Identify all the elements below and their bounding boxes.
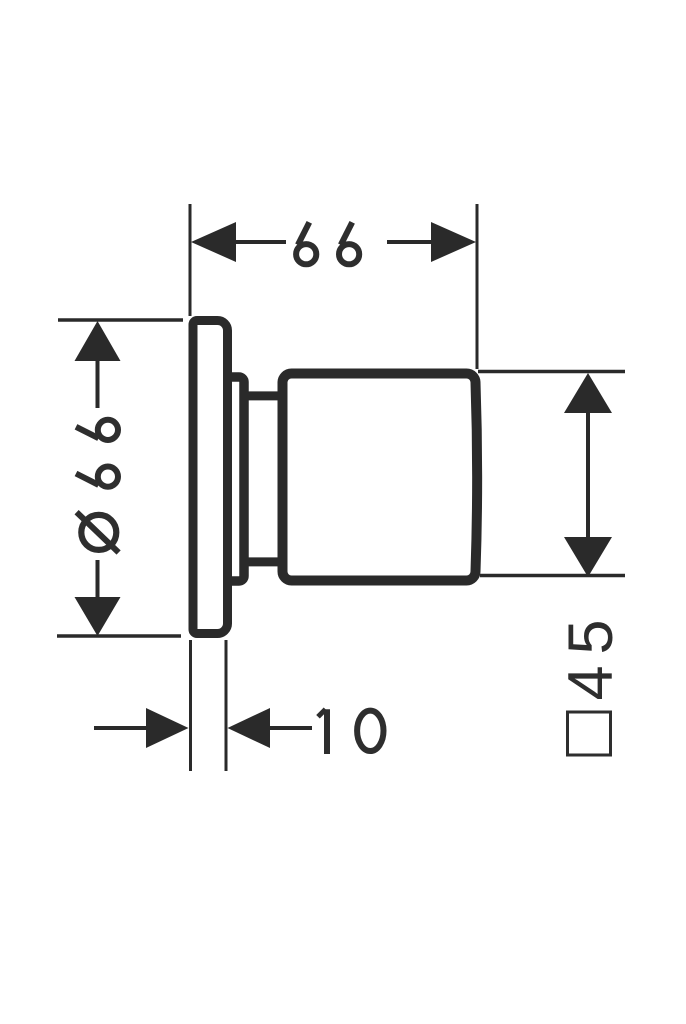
node square symbol for 45: [568, 712, 611, 755]
node left down arrowhead: [75, 597, 121, 636]
wire bottom dimension tail right: [268, 726, 312, 730]
node top-right arrowhead: [431, 222, 476, 262]
wire left dimension stem lower: [96, 560, 100, 599]
node left up arrowhead: [75, 321, 121, 361]
wire neck top line: [240, 391, 286, 400]
wire left dimension stem upper: [96, 359, 100, 408]
wire right dimension stem: [586, 412, 590, 538]
node right down arrowhead: [564, 537, 612, 577]
wire neck bottom line: [240, 557, 286, 566]
wire bottom-left extension line: [189, 640, 192, 771]
node dimension text diameter 66 left: [76, 420, 119, 553]
node flange: [226, 377, 244, 581]
node right up arrowhead: [564, 373, 612, 413]
node bottom arrowhead pointing left: [228, 708, 271, 748]
node dimension text 10 bottom: [318, 709, 383, 754]
node wall plate: [193, 321, 228, 634]
wire right bottom extension line: [480, 574, 625, 578]
node dimension text 66 top: [296, 222, 359, 264]
wire left bottom extension line: [57, 634, 181, 638]
wire left top extension line: [58, 318, 183, 322]
wire bottom dimension tail left: [94, 726, 148, 730]
node bottom arrowhead pointing right: [146, 708, 189, 748]
wire top-right extension line: [476, 204, 479, 369]
node valve body: [283, 374, 478, 581]
node top-left arrowhead: [191, 222, 236, 262]
svg-text:45: 45: [556, 608, 626, 700]
wire top dimension tail left: [234, 240, 286, 244]
wire top dimension tail right: [387, 240, 434, 244]
wire right top extension line: [478, 370, 625, 374]
wire top-left extension line: [189, 204, 192, 316]
wire bottom-right extension line: [225, 640, 228, 771]
